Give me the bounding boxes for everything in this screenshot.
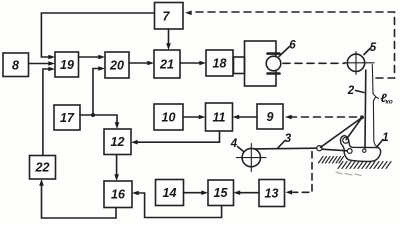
wire 14 to 15: [184, 190, 209, 195]
wire 19 to 20: [79, 55, 106, 60]
lever lower hole: [347, 149, 352, 154]
wire 20 to 21: [129, 61, 154, 66]
svg-text:14: 14: [163, 186, 177, 200]
wire 11 to 12: [131, 131, 220, 145]
block 20: [105, 52, 129, 78]
rod 2: [364, 70, 367, 148]
cord junction to pivot ring: [321, 118, 363, 148]
block 10: [154, 104, 183, 130]
svg-text:1: 1: [382, 132, 388, 144]
motor coupling stub: [234, 57, 245, 74]
svg-text:21: 21: [159, 58, 174, 72]
block 7: [155, 3, 184, 30]
block 16: [104, 181, 132, 208]
junction on rod: [360, 115, 364, 119]
svg-text:17: 17: [60, 111, 75, 125]
measurement line l_ko: [372, 65, 378, 148]
svg-text:19: 19: [60, 58, 74, 72]
svg-text:20: 20: [109, 59, 124, 73]
block 17: [54, 105, 80, 130]
wire 21 to 18: [180, 61, 206, 66]
label 3 leader: [278, 141, 286, 149]
rod 2 end pin: [363, 149, 366, 152]
wire 13 to 15: [234, 190, 260, 195]
svg-text:3: 3: [285, 133, 292, 145]
label 5 leader: [364, 48, 371, 55]
svg-text:8: 8: [12, 59, 19, 73]
wire junction to 20: [93, 66, 105, 115]
block 22: [30, 156, 56, 180]
wire 16 to 22: [39, 179, 116, 218]
dashed feedback rod to block 7: [185, 11, 395, 79]
ground hatching left: [319, 157, 344, 164]
motor M6 circle: [266, 56, 281, 71]
block 12: [104, 129, 131, 155]
pivot ring: [317, 146, 322, 151]
block 11: [206, 103, 233, 131]
svg-text:12: 12: [111, 135, 125, 149]
svg-text:2: 2: [347, 85, 355, 97]
label 2: [347, 85, 355, 97]
dashed wire rope to 13: [286, 152, 313, 195]
motor frame: [245, 41, 277, 86]
svg-text:22: 22: [35, 161, 50, 175]
pulley 4: [237, 144, 267, 172]
block 19: [55, 52, 79, 77]
label 6 leader: [279, 47, 290, 57]
block 13: [259, 180, 285, 207]
faint scan marks under ground: [336, 172, 361, 176]
label 1: [382, 132, 388, 144]
wire 17 to junction: [80, 114, 117, 116]
svg-text:5: 5: [370, 42, 377, 54]
wire 8 to 19: [29, 61, 56, 66]
label 3: [285, 133, 292, 145]
block 18: [206, 50, 233, 76]
label 4: [230, 138, 238, 150]
dashed link motor to pulley 5: [283, 62, 345, 64]
wire 7 to 19: [41, 13, 154, 59]
ground hatching bottom: [338, 162, 391, 169]
rope 3: [253, 147, 317, 150]
label 1 leader: [377, 140, 384, 148]
wire 9 to 11: [233, 115, 258, 120]
dashed wire junction to 9: [285, 115, 357, 120]
svg-text:15: 15: [214, 186, 229, 200]
label 4 leader: [238, 147, 244, 152]
pulley 5: [344, 52, 374, 75]
svg-text:13: 13: [265, 187, 279, 201]
lever body 1: [340, 136, 380, 162]
block 14: [156, 180, 184, 206]
svg-text:18: 18: [213, 57, 227, 71]
block 8: [3, 53, 29, 77]
svg-text:16: 16: [111, 188, 126, 202]
svg-text:4: 4: [230, 138, 238, 150]
wire 15 to 16: [132, 191, 222, 218]
svg-text:9: 9: [267, 110, 274, 124]
label 5: [370, 42, 377, 54]
label 2 leader: [356, 91, 365, 93]
wire junction to 12: [115, 115, 120, 129]
svg-text:11: 11: [213, 111, 226, 125]
block 9: [257, 104, 283, 129]
wire 12 to 16: [114, 155, 119, 182]
svg-text:10: 10: [162, 111, 176, 125]
svg-text:ко: ко: [386, 99, 393, 106]
label 6: [289, 40, 296, 52]
wire 7 to 21: [166, 29, 171, 50]
block 21: [154, 50, 180, 78]
junction dot: [91, 113, 95, 117]
svg-text:7: 7: [163, 10, 171, 24]
wire 22 to 19: [43, 67, 55, 156]
cord junction to lever tab: [346, 118, 362, 140]
block 15: [208, 180, 234, 206]
motor brush caps: [268, 54, 280, 74]
svg-text:6: 6: [289, 40, 296, 52]
label l_ko: [381, 91, 393, 106]
lever tab hole: [343, 137, 349, 143]
link pivot to lever: [322, 149, 348, 151]
wire 10 to 11: [183, 115, 206, 120]
